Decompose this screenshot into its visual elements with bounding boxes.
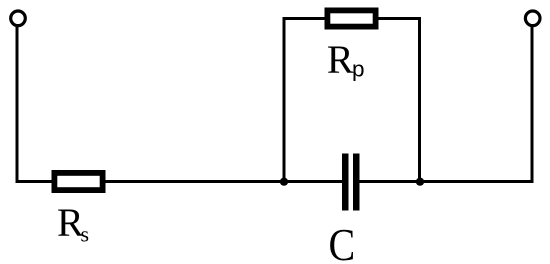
svg-text:R: R <box>327 37 354 82</box>
svg-text:p: p <box>352 57 365 82</box>
svg-text:s: s <box>81 221 90 246</box>
svg-text:C: C <box>329 220 356 264</box>
